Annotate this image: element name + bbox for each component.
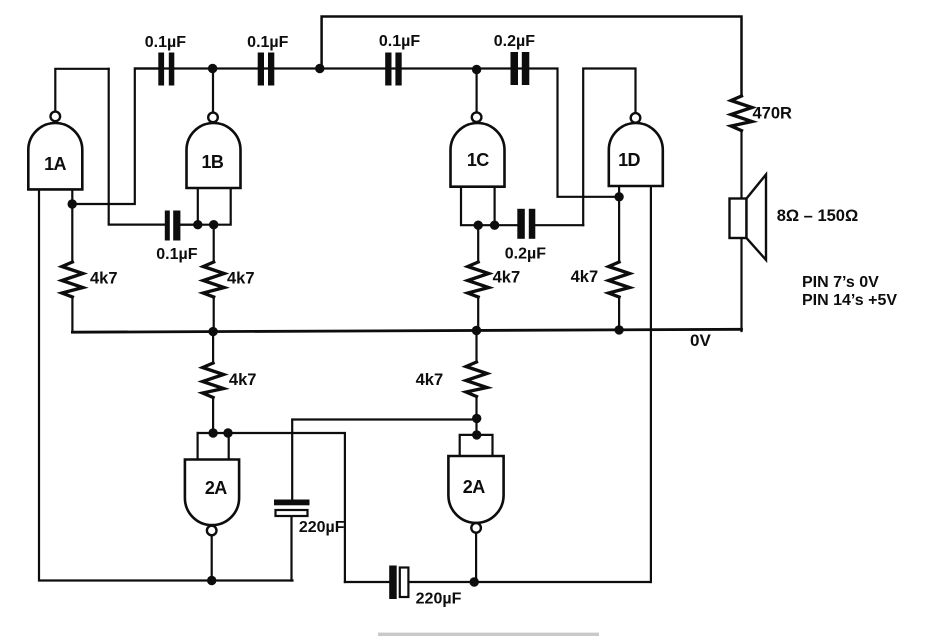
resistor R2 4k7 (below 1B) — [203, 262, 224, 297]
junction dot 2A-left input left — [208, 428, 217, 437]
wire 1A input to top cap chain left end — [72, 69, 158, 205]
junction dot top rail tap — [315, 64, 324, 73]
wire 2A-right input legs — [460, 435, 493, 456]
NAND gate 2A-left body (inverted) — [185, 460, 239, 526]
wire lower-left 0.1uF cap to 1B inputs — [181, 224, 198, 226]
wire 1C output stub — [476, 70, 478, 113]
svg-text:0.1µF: 0.1µF — [247, 34, 288, 51]
svg-text:4k7: 4k7 — [229, 371, 257, 389]
wire resistor R1 bottom to 0V rail — [71, 297, 73, 331]
svg-text:1B: 1B — [201, 152, 223, 172]
NAND gate 2A-right output bubble — [471, 523, 481, 533]
capacitor C5 0.1uF plates (below 1B) — [165, 211, 170, 241]
junction dot 1A input — [68, 199, 77, 208]
wire top capacitor chain — [135, 69, 619, 197]
wire top rail +5V feed to 470R — [322, 17, 742, 97]
wire 1A output up and right — [55, 69, 108, 112]
junction dot 0V rail at R2/R5 — [208, 327, 217, 336]
junction dot 1C input left — [474, 221, 483, 230]
svg-text:0.2µF: 0.2µF — [494, 33, 535, 50]
resistor R5 4k7 (above 2A left) — [203, 363, 224, 398]
wire 470R to speaker and speaker to 0V rail — [740, 131, 742, 331]
wire 1B input legs — [181, 187, 231, 225]
svg-text:PIN 7’s 0V: PIN 7’s 0V — [802, 274, 879, 291]
capacitor C2 0.1uF plates — [258, 53, 264, 86]
wire 1D output to lower 0.2uF cap — [583, 69, 635, 226]
speaker LS1 cone — [747, 175, 767, 260]
speaker LS1 driver box — [730, 199, 747, 239]
capacitor C8 220uF hollow plate — [400, 568, 409, 598]
wire 1B output stub — [212, 69, 214, 113]
NAND gate 1C body — [451, 123, 505, 187]
svg-text:0V: 0V — [690, 331, 711, 350]
svg-text:470R: 470R — [753, 105, 793, 123]
wire bottom-right rail — [345, 581, 651, 583]
wire lower-right 4k7 resistor leads — [475, 331, 477, 435]
svg-text:8Ω – 150Ω: 8Ω – 150Ω — [777, 207, 859, 225]
NAND gate 1A output bubble — [51, 112, 61, 122]
svg-text:4k7: 4k7 — [493, 269, 521, 287]
NAND gate 1D body — [609, 123, 663, 186]
NAND gate 1C output bubble — [472, 112, 482, 122]
junction dot 2A-left output on rail — [207, 576, 216, 585]
wire 1B resistor leads — [213, 225, 215, 331]
svg-text:220µF: 220µF — [416, 590, 462, 607]
NAND gate 1B output bubble — [208, 113, 218, 123]
svg-text:4k7: 4k7 — [571, 268, 599, 286]
wire 1A left input leg down to bottom-left rail — [39, 189, 293, 580]
svg-text:220µF: 220µF — [299, 519, 345, 536]
NAND gate 2A-left output bubble — [207, 526, 217, 536]
svg-text:4k7: 4k7 — [90, 270, 118, 288]
NAND gate 1A body — [28, 123, 82, 189]
wire 2A-left output — [211, 535, 213, 580]
wire 1C resistor leads — [477, 225, 479, 331]
svg-text:2A: 2A — [463, 477, 485, 497]
wire vertical from 1A output elbow down to lower 0.1uF cap — [109, 69, 165, 225]
capacitor C8 220uF electrolytic solid plate — [389, 566, 397, 600]
wire left 220uF cap bottom to bottom-left rail — [290, 516, 292, 580]
NAND gate 2A-right body (inverted) — [448, 456, 503, 523]
svg-text:0.1µF: 0.1µF — [156, 246, 197, 263]
resistor R7 470R — [731, 96, 752, 131]
caption remnant strip at bottom — [378, 633, 599, 636]
capacitor C3 0.1uF plates — [385, 53, 391, 86]
wire 0V rail — [72, 329, 741, 332]
svg-text:PIN 14’s +5V: PIN 14’s +5V — [802, 292, 897, 309]
wire 1A right input leg — [71, 189, 73, 262]
svg-text:0.1µF: 0.1µF — [379, 33, 420, 50]
NAND gate 1B body — [187, 123, 241, 188]
junction dot 2A-right resistor node — [472, 414, 481, 423]
svg-text:1D: 1D — [618, 150, 640, 170]
svg-text:2A: 2A — [205, 478, 227, 498]
capacitor C4 0.2uF plates — [511, 52, 519, 85]
junction dot 1B input right — [209, 220, 218, 229]
resistor R3 4k7 (below 1C) — [468, 262, 489, 297]
junction dot 0V rail at R4 — [614, 325, 623, 334]
capacitor C7 220uF hollow plate — [276, 510, 308, 516]
svg-text:0.2µF: 0.2µF — [505, 246, 546, 263]
junction dot 1B output on chain — [208, 64, 217, 73]
wire 1D left input leg and resistor leads — [618, 186, 620, 331]
svg-text:4k7: 4k7 — [416, 371, 444, 389]
capacitor C1 0.1uF plates — [158, 53, 164, 86]
wire 1C input legs — [461, 187, 517, 226]
wire 2A-right output — [475, 533, 477, 583]
junction dot 1D input — [614, 192, 623, 201]
junction dot 2A-right input — [472, 430, 481, 439]
junction dot 2A-right output on rail — [470, 577, 479, 586]
wire lower 0.2uF cap right to 1D output feed — [536, 224, 583, 226]
svg-text:1C: 1C — [467, 150, 489, 170]
capacitor C6 0.2uF plates (below 1C) — [517, 209, 525, 239]
wire left 220uF cap top to 2A-right inputs — [292, 420, 477, 500]
wire lower-left 4k7 resistor leads — [212, 331, 214, 433]
NAND gate 1D output bubble — [631, 113, 641, 123]
junction dot 1C input right — [490, 221, 499, 230]
junction dot 1B input left — [193, 220, 202, 229]
wire 1D right input leg down to bottom-right rail — [650, 186, 652, 582]
svg-text:4k7: 4k7 — [227, 270, 255, 288]
svg-text:0.1µF: 0.1µF — [145, 34, 186, 51]
wire 2A-left input legs — [198, 433, 229, 460]
junction dot 2A-left input right — [223, 428, 232, 437]
resistor R4 4k7 (below 1D) — [609, 262, 630, 297]
junction dot 1C output on chain — [472, 65, 481, 74]
svg-text:1A: 1A — [44, 154, 66, 174]
wire 2A-left inputs to bottom-right rail — [198, 433, 345, 582]
capacitor C7 220uF electrolytic solid plate — [274, 500, 310, 506]
junction dot 0V rail at R3/R6 — [472, 326, 481, 335]
resistor R6 4k7 (above 2A right) — [466, 362, 487, 397]
resistor R1 4k7 (below 1A) — [62, 262, 83, 297]
